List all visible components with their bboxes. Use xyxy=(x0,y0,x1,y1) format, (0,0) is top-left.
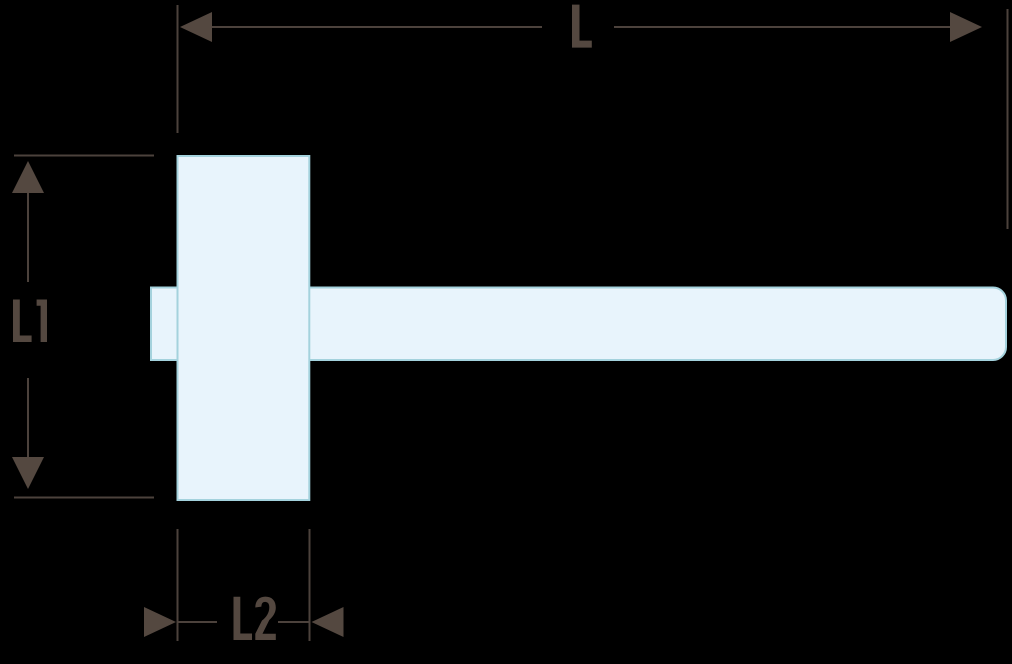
dimension L: line right segment xyxy=(614,26,951,28)
label L1: letter L xyxy=(13,300,32,343)
dimension L1: bottom arrowhead xyxy=(12,457,44,489)
dimension L2: right extension line xyxy=(309,529,311,641)
dimension L1: line upper segment xyxy=(27,192,29,282)
dimension L: right arrowhead xyxy=(950,12,982,42)
label L xyxy=(572,5,592,48)
dimension L1: top extension line xyxy=(14,155,154,157)
label L1: digit 1 xyxy=(37,300,47,343)
dimension L1: bottom extension line xyxy=(14,497,154,499)
dimension L: line left segment xyxy=(211,26,542,28)
label L2: letter L xyxy=(234,597,253,640)
dimension L2: right arrowhead (outside, pointing left) xyxy=(312,607,344,637)
dimension L2: left arrowhead (outside, pointing right) xyxy=(144,607,176,637)
dimension L: right extension line xyxy=(1007,9,1009,229)
dimension L: left extension line xyxy=(177,5,179,133)
dimension L1: top arrowhead xyxy=(12,161,44,193)
dimension L2: line right segment xyxy=(278,621,309,623)
dimension L2: left extension line xyxy=(177,529,179,641)
dimension L: left arrowhead xyxy=(180,12,212,42)
tool handle (rounded right end) xyxy=(151,288,1006,361)
label L2: digit 2 xyxy=(255,597,275,640)
dimension L2: line left segment xyxy=(178,621,217,623)
tool head (vertical block) xyxy=(178,156,310,500)
dimension L1: line lower segment xyxy=(27,378,29,457)
